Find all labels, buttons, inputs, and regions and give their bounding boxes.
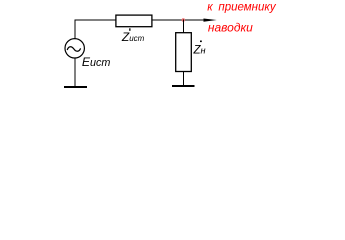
wire resistor to junction and arrow tail [152,19,205,21]
resistor box Zист [116,15,152,27]
svg-text:Zн: Zн [193,44,206,56]
wire top-left vertical [74,20,76,39]
svg-text:наводки: наводки [208,21,253,35]
wire source to ground [74,58,76,87]
dot of Żист [129,28,130,31]
wire top horizontal to resistor [75,19,117,21]
svg-text:к: к [207,1,213,13]
source E circle [65,39,84,58]
load box Zн [176,33,192,72]
ground (load side) [172,85,195,87]
ground (source side) [64,86,87,88]
svg-text:приемнику: приемнику [218,1,276,13]
svg-text:Еист: Еист [82,55,111,69]
dot of Żн [200,41,202,43]
node junction (red) [182,18,185,21]
arrowhead to receiver [204,18,217,21]
wire junction down to load [183,20,185,33]
wire load to ground [183,72,185,87]
sine symbol [67,47,80,51]
